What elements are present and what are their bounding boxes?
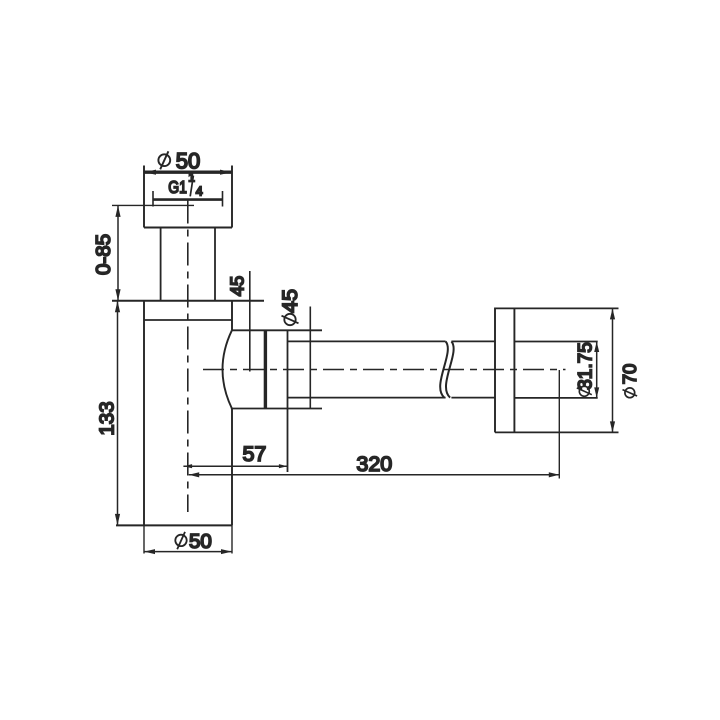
body-pipe intersection arc: [223, 330, 232, 408]
svg-text:133: 133: [96, 401, 119, 435]
pipe break curve right: [446, 341, 454, 397]
label D45: [278, 289, 302, 325]
thread line G1 1/4: [153, 191, 223, 207]
coupling nut bottom edge: [231, 408, 322, 410]
wall flange inner face: [513, 308, 515, 433]
trap body step line: [144, 319, 232, 321]
svg-text:0-85: 0-85: [92, 234, 115, 275]
socket bottom edge: [514, 397, 597, 399]
dimension line D50 bottom: [144, 549, 232, 554]
extension line top of 0-85: [112, 204, 194, 206]
svg-text:4: 4: [196, 185, 203, 199]
svg-text:50: 50: [189, 530, 212, 553]
label D31.75: [575, 342, 596, 396]
trap body top edge: [112, 300, 264, 302]
dimension line 0-85: [115, 205, 120, 300]
dimension line D45: [309, 307, 311, 409]
dimension line D31.75 / socket end: [594, 342, 599, 398]
svg-text:G1: G1: [168, 179, 187, 198]
dimension line 57: [183, 464, 287, 468]
svg-text:45: 45: [226, 276, 247, 297]
coupling nut top edge: [232, 329, 322, 331]
vertical centerline: [187, 201, 189, 513]
socket top edge: [514, 341, 597, 343]
svg-text:57: 57: [242, 442, 266, 466]
wall flange top edge + extension: [495, 307, 619, 309]
svg-text:320: 320: [356, 452, 392, 476]
inlet pipe walls: [161, 228, 215, 301]
extension line for 320 right: [558, 370, 560, 479]
outlet pipe top wall: [288, 340, 496, 342]
label D50 top: [158, 148, 200, 173]
coupling nut right face + extension down: [287, 330, 289, 472]
horizontal centerline: [203, 369, 566, 371]
coupling nut facet line: [264, 330, 267, 408]
dimension line 320: [189, 472, 560, 477]
label D70: [619, 364, 640, 398]
dimension line 45: [249, 271, 251, 372]
trap body left wall: [143, 301, 145, 526]
label D50 bottom: [175, 530, 212, 553]
dimension line D50 top: [144, 170, 232, 175]
svg-text:45: 45: [278, 289, 302, 313]
svg-text:31.75: 31.75: [575, 342, 596, 390]
extension lines D50 bottom: [144, 525, 232, 553]
dimension line D70: [610, 308, 615, 432]
wall flange left face: [494, 308, 496, 433]
wall flange bottom edge + extension: [495, 431, 619, 433]
pipe break curve left: [440, 341, 448, 397]
trap body bottom edge: [116, 524, 232, 526]
flange (top nut) outline: [144, 166, 232, 228]
svg-text:70: 70: [619, 364, 640, 385]
trap body right wall: [231, 301, 233, 526]
outlet pipe bottom wall: [288, 397, 496, 399]
dimension line 133: [115, 301, 120, 526]
